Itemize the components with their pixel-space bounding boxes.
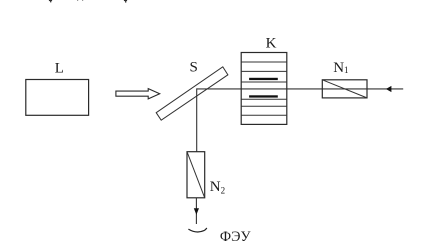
cut-off text line at top edge — [49, 0, 127, 3]
wire: vertical beam below N2 — [195, 198, 197, 224]
svg-text:N2: N2 — [210, 179, 225, 195]
arrowhead: beam to detector — [194, 208, 199, 214]
hollow beam arrow — [116, 89, 160, 99]
Kerr cell K body — [241, 53, 287, 125]
analyzer N2 diagonal — [187, 152, 205, 198]
polarizer N1 box — [322, 80, 367, 98]
Kerr cell stack lines — [241, 62, 287, 115]
light source box L — [26, 80, 89, 116]
photodetector arc — [188, 228, 206, 232]
beam splitter plate S — [156, 67, 228, 120]
analyzer N2 box — [187, 152, 205, 198]
polarizer N1 diagonal — [322, 80, 367, 98]
svg-text:ФЭУ: ФЭУ — [220, 229, 252, 245]
wire: horizontal beam from S to right end — [197, 88, 404, 90]
svg-text:S: S — [190, 60, 198, 76]
arrowhead: light entering from right — [386, 86, 392, 92]
electrode bottom plate — [249, 95, 278, 97]
svg-text:L: L — [55, 60, 64, 76]
electrode top plate — [249, 78, 278, 80]
svg-text:K: K — [266, 36, 277, 52]
wire: vertical beam from S down to N2 — [196, 88, 198, 151]
svg-text:N1: N1 — [333, 60, 348, 76]
